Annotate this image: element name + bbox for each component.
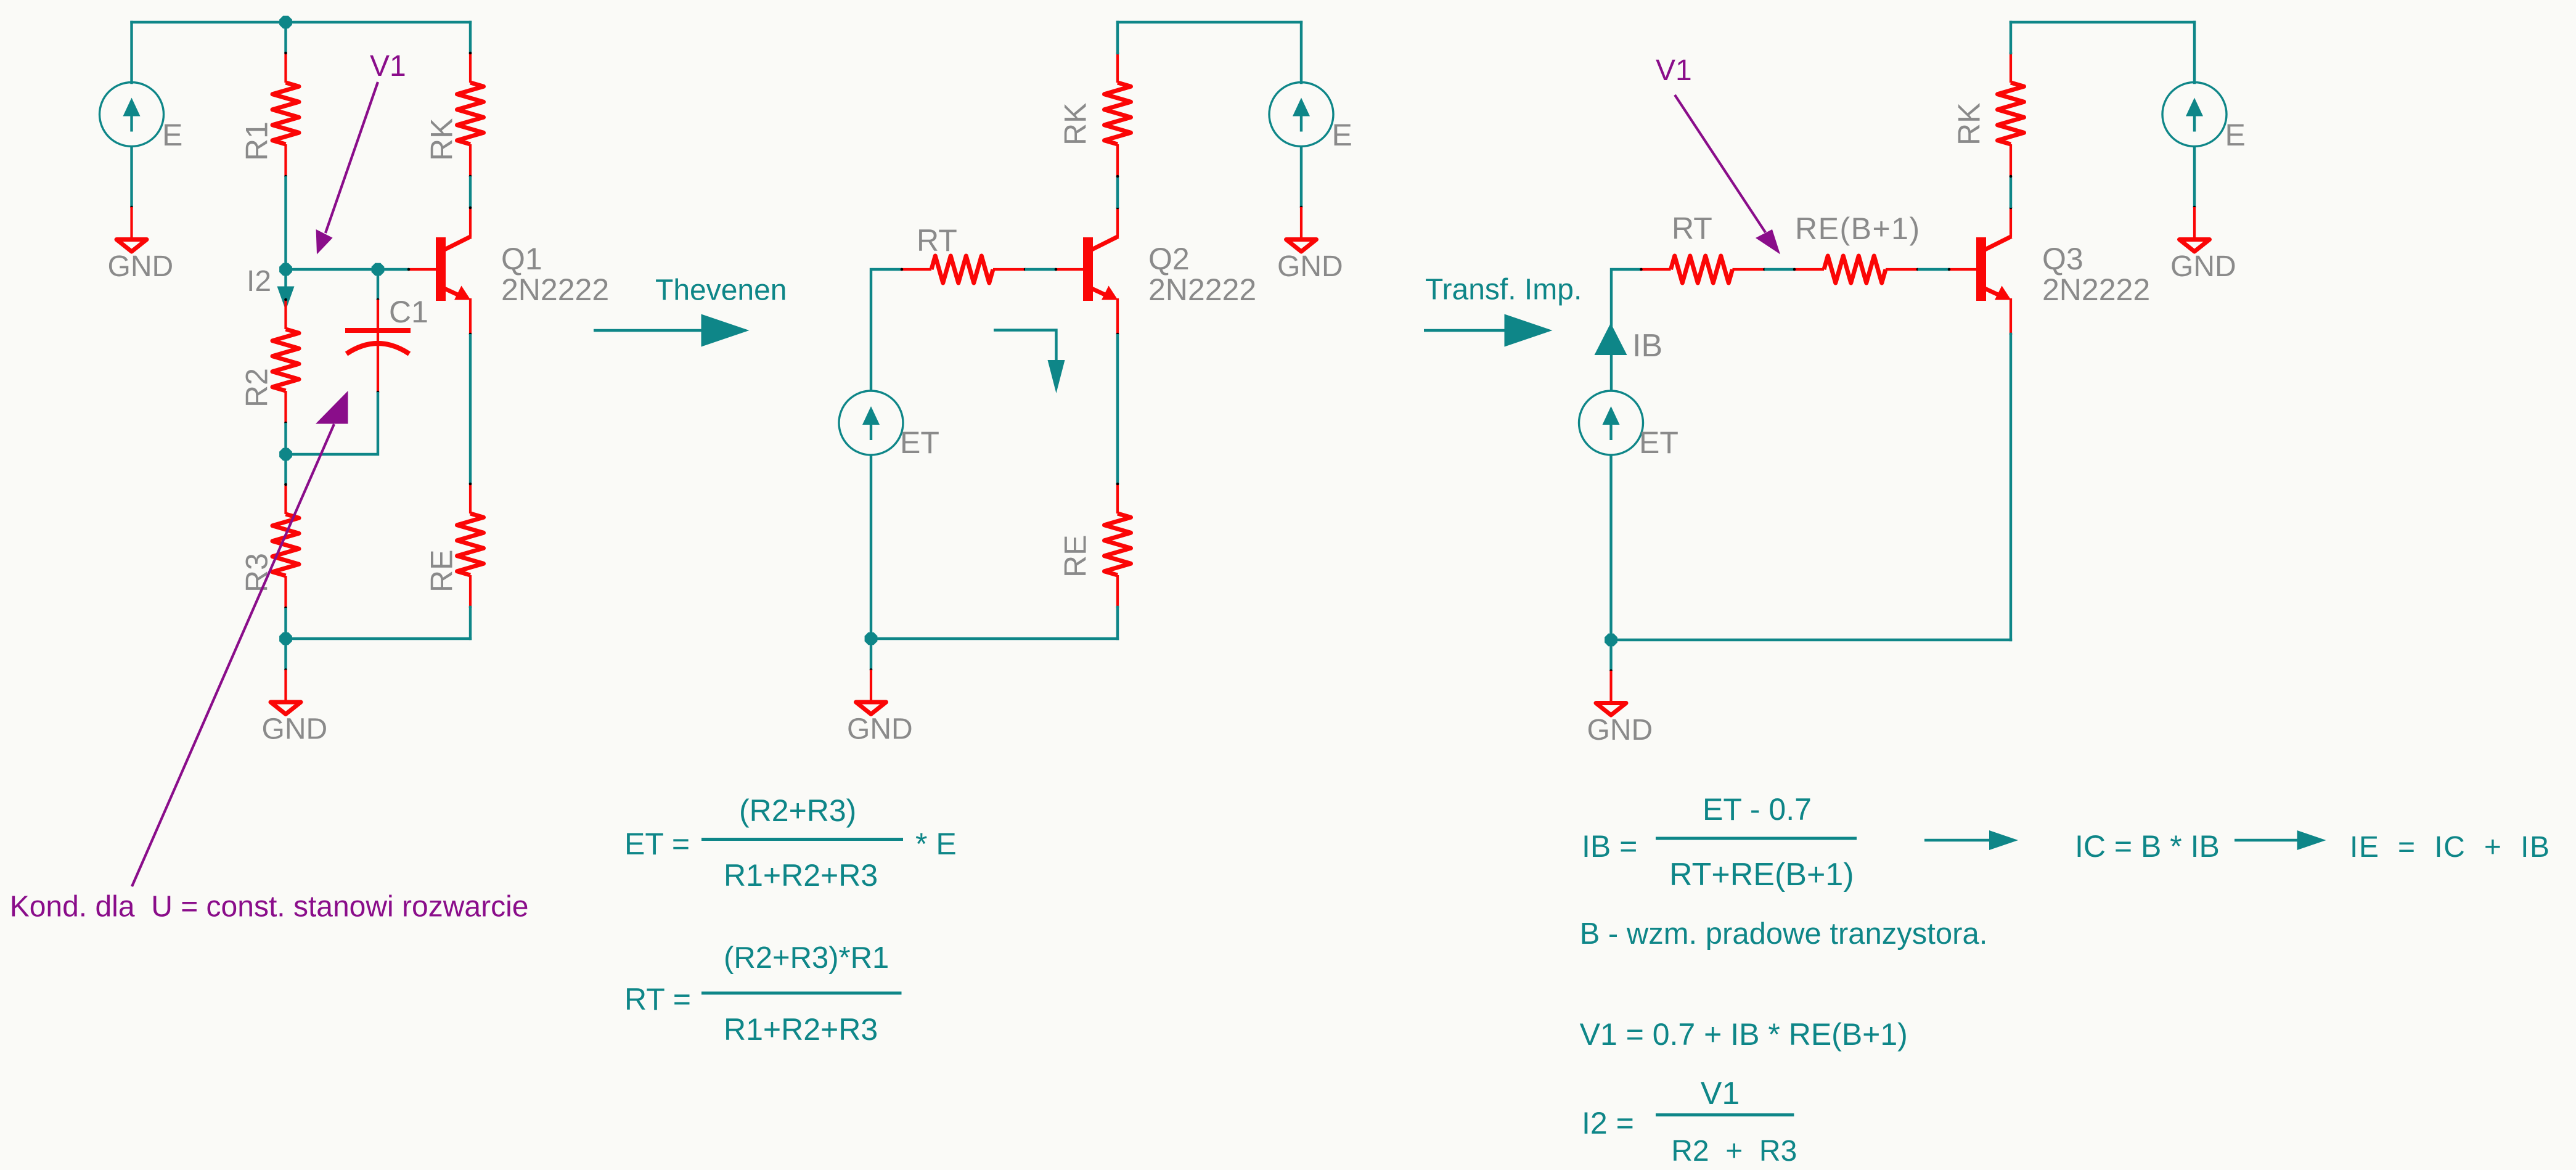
- svg-text:IC = B * IB: IC = B * IB: [2075, 829, 2220, 864]
- svg-text:ET: ET: [1639, 425, 1678, 460]
- current source E: [2162, 83, 2246, 153]
- svg-text:ET: ET: [900, 425, 939, 460]
- formula I2: [1582, 1076, 1797, 1168]
- wire R3 bottom to bottom rail: [284, 608, 287, 639]
- svg-text:R1+R2+R3: R1+R2+R3: [724, 1012, 878, 1047]
- arrow Transf. Imp.: [1424, 329, 1507, 332]
- svg-text:RT+RE(B+1): RT+RE(B+1): [1669, 857, 1854, 893]
- wire left branch middle (corner to ET): [871, 269, 902, 391]
- wire bottom rail left circuit: [286, 637, 471, 640]
- svg-text:Q1: Q1: [501, 242, 542, 276]
- transistor Q1 2N2222: [407, 207, 472, 336]
- wire R1 top: [284, 22, 287, 53]
- wire bottom rail right: [1611, 639, 2011, 641]
- svg-text:RE(B+1): RE(B+1): [1795, 211, 1921, 246]
- svg-text:Transf. Imp.: Transf. Imp.: [1425, 274, 1582, 306]
- wire RE bottom to rail middle: [1116, 607, 1119, 639]
- svg-text:ET =: ET =: [624, 827, 690, 861]
- transistor Q3 2N2222: [1948, 207, 2013, 336]
- wire node to GND right: [1609, 640, 1612, 671]
- svg-text:GND: GND: [1587, 714, 1653, 747]
- svg-text:IB: IB: [1632, 328, 1662, 364]
- wire C1 bottom to node: [286, 392, 378, 454]
- wire Q2 collector to RK: [1116, 176, 1119, 208]
- svg-text:R2: R2: [240, 368, 274, 407]
- formula ET: [624, 793, 957, 893]
- wire Q3 emitter down: [2010, 334, 2012, 640]
- ground GND4: [847, 668, 913, 745]
- svg-text:2N2222: 2N2222: [501, 272, 609, 307]
- svg-text:(R2+R3)*R1: (R2+R3)*R1: [724, 941, 889, 975]
- wire rail to E source right: [2193, 22, 2196, 83]
- current source E: [1269, 83, 1352, 153]
- svg-text:IE = IC + IB: IE = IC + IB: [2350, 831, 2550, 864]
- svg-text:Q3: Q3: [2042, 242, 2083, 276]
- svg-text:RT =: RT =: [624, 982, 691, 1017]
- node bottom rail middle: [865, 632, 878, 645]
- svg-text:V1: V1: [370, 50, 406, 83]
- svg-text:GND: GND: [108, 250, 174, 283]
- wire RK top to rail: [1116, 22, 1119, 53]
- svg-text:V1: V1: [1701, 1076, 1740, 1111]
- svg-text:RE: RE: [1058, 535, 1093, 578]
- svg-text:Q2: Q2: [1148, 242, 1190, 276]
- wire top rail middle: [1118, 21, 1301, 23]
- annotation arrow V1 to node: [316, 82, 378, 255]
- wire Q3 collector to RK: [2010, 176, 2012, 208]
- formula RT: [624, 941, 902, 1047]
- svg-text:E: E: [2225, 118, 2246, 152]
- wire RE(B+1) to Q3 base: [1918, 268, 1949, 271]
- wire ET to rail right: [1609, 455, 1612, 640]
- node base / C1 junction: [372, 263, 385, 276]
- arrow Thevenen: [594, 329, 704, 332]
- svg-text:RK: RK: [425, 118, 459, 161]
- annotation arrow V1 right: [1675, 95, 1780, 255]
- svg-text:E: E: [162, 118, 182, 152]
- wire ET to rail middle: [870, 455, 872, 639]
- svg-text:I2: I2: [247, 265, 271, 298]
- wire Q1 emitter to RE: [469, 334, 472, 484]
- svg-text:Thevenen: Thevenen: [655, 274, 787, 307]
- node I2 junction: [279, 263, 292, 276]
- svg-text:GND: GND: [847, 713, 913, 746]
- svg-text:GND: GND: [2170, 250, 2236, 283]
- node R2/R3/C1 junction: [279, 448, 292, 461]
- svg-text:2N2222: 2N2222: [2042, 272, 2150, 307]
- wire left branch right circuit (corner to ET): [1611, 269, 1642, 391]
- current source ET: [839, 391, 939, 460]
- arrow formula 1: [1924, 839, 1992, 841]
- ground GND1: [108, 206, 174, 283]
- resistor RE(B+1): [1793, 256, 1920, 283]
- node top rail / R1: [279, 16, 292, 29]
- wire RE bottom to rail: [469, 607, 472, 639]
- svg-text:E: E: [1332, 118, 1352, 152]
- wire base net Q1: [286, 268, 409, 271]
- svg-text:RK: RK: [1952, 103, 1987, 145]
- svg-text:R1+R2+R3: R1+R2+R3: [724, 858, 878, 893]
- wire E to GND middle: [1300, 146, 1302, 207]
- wire RK top to rail right: [2010, 22, 2012, 53]
- wire rail to E source middle: [1300, 22, 1302, 83]
- arrow formula 2: [2235, 839, 2300, 841]
- svg-text:GND: GND: [1277, 250, 1343, 283]
- wire E source to GND: [130, 146, 133, 207]
- svg-text:V1 = 0.7 + IB * RE(B+1): V1 = 0.7 + IB * RE(B+1): [1580, 1017, 1908, 1052]
- svg-text:(R2+R3): (R2+R3): [739, 793, 856, 828]
- svg-text:RT: RT: [1672, 211, 1712, 246]
- node bottom rail right: [1605, 634, 1617, 647]
- node bottom rail: [279, 632, 292, 645]
- ground GND3: [1277, 206, 1343, 283]
- wire R2 bottom to node: [284, 423, 287, 454]
- current direction arrow (middle): [994, 330, 1065, 394]
- formula IB: [1582, 792, 1857, 893]
- resistor RT: [901, 256, 1027, 283]
- capacitor C1: [345, 298, 411, 394]
- svg-text:V1: V1: [1656, 54, 1692, 87]
- wire top rail left circuit: [132, 21, 471, 23]
- svg-text:RT: RT: [917, 223, 957, 258]
- wire RK top: [469, 22, 472, 53]
- resistor RK3: [1998, 52, 2024, 178]
- ground GND2: [262, 668, 328, 745]
- svg-text:* E: * E: [915, 827, 957, 861]
- wire RT to Q2 base: [1025, 268, 1056, 271]
- wire node to R3: [284, 454, 287, 485]
- resistor R3: [272, 483, 299, 610]
- svg-text:GND: GND: [262, 713, 328, 746]
- resistor RE2: [1105, 483, 1131, 609]
- current source ET: [1579, 391, 1678, 460]
- wire E source top: [130, 22, 133, 83]
- wire top rail right: [2011, 21, 2194, 23]
- svg-text:C1: C1: [389, 295, 428, 329]
- wire bottom rail middle: [871, 637, 1118, 640]
- wire RT to RE(B+1): [1765, 268, 1795, 271]
- wire E to GND right: [2193, 146, 2196, 207]
- svg-text:IB =: IB =: [1582, 829, 1637, 864]
- svg-text:Kond. dla U = const. stanowi: Kond. dla U = const. stanowi rozwarcie: [10, 891, 529, 923]
- svg-text:I2 =: I2 =: [1582, 1106, 1634, 1140]
- wire Q2 emitter to RE: [1116, 334, 1119, 484]
- wire node to GND middle: [870, 639, 872, 670]
- current source E: [100, 83, 183, 153]
- wire node to GND: [284, 639, 287, 670]
- current arrow IB: [1595, 323, 1627, 355]
- svg-text:RE: RE: [425, 550, 459, 592]
- resistor RT2: [1640, 256, 1766, 283]
- current arrow I2: [277, 287, 295, 311]
- svg-text:R1: R1: [240, 121, 274, 161]
- annotation arrow capacitor note: [132, 391, 348, 886]
- wire node I2 to R2: [284, 269, 287, 300]
- ground GND6: [1587, 669, 1653, 747]
- resistor RK2: [1105, 52, 1131, 178]
- wire R1 bottom to node I2: [284, 176, 287, 269]
- transistor Q2 2N2222: [1055, 207, 1119, 336]
- ground GND5: [2170, 206, 2236, 283]
- resistor RE: [457, 483, 484, 609]
- svg-text:2N2222: 2N2222: [1148, 272, 1256, 307]
- svg-text:ET - 0.7: ET - 0.7: [1703, 792, 1812, 827]
- svg-text:B - wzm. pradowe tranzystora.: B - wzm. pradowe tranzystora.: [1580, 917, 1988, 951]
- resistor R1: [272, 52, 299, 178]
- wire C1 top: [377, 269, 379, 300]
- svg-text:RK: RK: [1058, 103, 1093, 145]
- wire RK bottom to Q1 collector: [469, 176, 472, 208]
- resistor R2: [272, 298, 299, 425]
- resistor RK: [457, 52, 484, 178]
- svg-text:R2 + R3: R2 + R3: [1671, 1135, 1797, 1168]
